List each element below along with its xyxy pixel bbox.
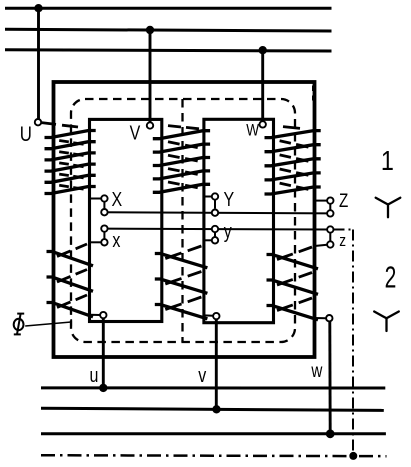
svg-text:U: U [20, 123, 32, 146]
svg-text:w: w [310, 359, 322, 381]
svg-text:Y: Y [223, 188, 234, 210]
svg-text:Z: Z [339, 189, 348, 211]
svg-text:u: u [90, 364, 99, 386]
svg-text:W: W [246, 121, 259, 140]
svg-text:1: 1 [381, 146, 394, 176]
svg-text:y: y [224, 220, 233, 242]
svg-text:X: X [111, 188, 122, 210]
svg-text:V: V [130, 122, 141, 144]
svg-text:v: v [198, 364, 206, 386]
svg-text:z: z [339, 232, 346, 251]
svg-text:x: x [112, 229, 120, 251]
svg-text:2: 2 [385, 260, 397, 295]
